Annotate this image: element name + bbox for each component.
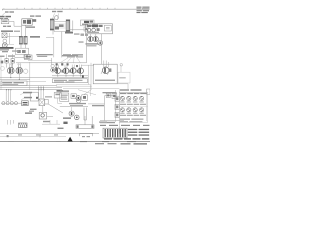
wire V2 stem [95,34,97,37]
module M4 info box left [25,55,33,60]
wire dynamotor lead down left [52,31,54,35]
wire VL2 cathode drop [18,74,20,79]
wire VL1 cathode drop [10,74,12,78]
wire V5 pins [72,65,74,68]
node caption interphone amplifier [36,54,53,55]
node label leader text above tube row [63,54,71,55]
node label left of V1 [79,41,84,42]
wire V7 pins [104,61,109,68]
note socket chart label row B [120,104,126,105]
wire right mid horizontal [105,95,116,97]
wire bottom strip verticals [7,120,13,125]
capacitor C3 marks [81,34,85,36]
wire top bus rule [2,8,143,10]
wire antenna leader [2,13,5,16]
wire tube row bus lower1 [52,75,88,77]
wire leader SD [20,93,23,95]
capacitor C16 between tubes [69,70,71,73]
wire right drop 2 [88,65,90,84]
node dark junction blob [82,75,84,78]
node label REMOTE [1,30,13,32]
note socket chart caption D [120,119,130,120]
terminal TB1 [115,96,119,101]
node marks under staple [82,136,85,137]
transformer T2 secondary winding [24,36,27,44]
resistor R2 [11,59,14,63]
wire right drop 1 [90,85,92,97]
terminal TB3 [115,112,119,117]
capacitor C13 small dark [1,61,4,64]
capacitor C14 light circle [24,69,28,73]
node pin circles above VL2 [18,64,19,65]
battery BT2 vertical pair [84,108,86,120]
node dark TP mark [63,122,67,124]
note socket chart labels under row 1 [120,101,124,104]
wire relay K2 to transformer T2 primary [20,25,22,36]
wire V6 cathode stub [80,74,82,76]
wire diagonal up right [84,90,92,95]
node label WIRING text [92,105,104,106]
node label TO REC [3,26,6,27]
tube V7 inside M8 [102,67,109,74]
wire from M8 to right [117,84,128,89]
node tick marks on top bus [17,8,115,10]
node label above R5 [63,117,71,119]
wire relay K2 to transformer T2 secondary [25,25,27,36]
meter M2 small circle [3,39,7,43]
module M8 right amplifier box [93,64,117,84]
connector P2 pin circle 3 [10,102,13,105]
note lower table row D dark [104,138,112,139]
wire dynamotor lead down right [61,32,63,58]
wire leader fan 2 [67,58,72,63]
tube V6 [78,68,84,74]
node label 300K [65,32,73,34]
capacitor C15 between tubes [62,70,64,73]
node caption right section [62,55,78,56]
wire V4 cathode stub [65,74,67,76]
capacitor C17 between tubes [77,70,79,73]
wire chassis boundary horizontal [46,37,54,57]
capacitor C1 inside dynamotor [55,27,59,30]
wire crystal branch [9,33,11,44]
wire drop to faint box [120,65,122,72]
resistor R5 horizontal [76,125,94,129]
wire diagonal to lower cluster [78,90,96,95]
battery BT1 inner box [104,25,111,31]
resistor R3 beside S1 [45,99,48,104]
connector P1 circle with pins [2,43,7,48]
jack J4 box with ring [39,112,46,119]
wire link to right [27,80,46,82]
node footer caption text left [95,143,104,144]
wire vertical long x115 [115,90,117,122]
relay K5 box [82,95,88,101]
note revision stamp text block top right [137,7,150,14]
note table right border [146,89,148,121]
relay K6 lower coil [51,68,55,72]
tube V2 below control box [93,36,98,41]
node label small left b [12,50,19,51]
wire connector chain [1,102,22,104]
wire crystal to transformer [7,36,21,38]
node label TO ANT [5,11,9,12]
node junction circle on dynamotor DM1 [55,16,59,20]
wire J4 output right [47,116,53,118]
tube socket symbols row 1 [120,96,143,100]
wire leader fan 1 [60,58,69,63]
wire drop to relay K6 [51,58,53,64]
note stamp box top [147,89,150,94]
wire V3 cathode stub [57,74,59,76]
wire lead into R2 [12,54,14,59]
capacitor C9 near V7 [109,69,112,72]
wire leader fan 3 [73,58,76,63]
transformer T3 double circle [76,96,81,101]
node label 1 mark [7,135,9,137]
jack J3 small box [24,55,30,59]
node label INTERPHONE dark row [0,47,14,49]
pin contacts K6 [55,67,57,69]
tube V1 below control box [88,36,93,41]
node label right of R5 [99,121,107,122]
module M7 tube row label box [53,79,88,83]
module M12 box [60,93,69,101]
wire long link to chart [63,88,119,90]
connector PL1 plug hatched [22,101,29,106]
wire bottom horizontal y120 [100,120,124,122]
wire P1 to M3 [8,44,15,46]
node label BO right [25,112,32,114]
wire VL1 pin leads [10,65,12,68]
wire bus lower left [0,78,30,80]
node footer dark dashes [8,140,61,143]
wire long bus B [0,87,62,89]
wire footer rule dark [0,141,150,143]
note lower table row B [128,132,138,133]
node label rows below cluster [69,103,86,104]
wire verticals into lower connector [6,90,10,101]
capacitor C8 grid cap [76,65,78,67]
wire cluster bus [60,106,88,108]
pin leads above VL2 [18,65,20,68]
node label SD right [23,92,32,94]
note socket chart border [119,92,147,122]
node label left of J4 [30,109,37,110]
module M9 faint box right [118,72,130,83]
wire V7 winding hatch [101,67,110,75]
tube V5 [70,68,76,74]
note socket chart label row A [120,93,126,94]
crystal Y1 box with X [2,33,7,38]
node label dashes right mid [103,92,117,93]
node label tiny left [0,56,5,57]
node pin circles above VL1 [9,64,10,65]
node label antenna relay title [0,16,5,17]
transformer T2 primary winding [19,36,22,44]
node label TO left [58,128,64,129]
node label inside M8 [95,80,115,81]
note table header [120,89,129,90]
resistor R4 hatched dark [19,123,28,128]
transformer T4 dark small [75,115,80,120]
module M10 box [30,92,38,101]
wire title strip line y133 [0,133,99,135]
wire V1 stem [89,34,91,37]
wire diagonal S1 to lower right [48,104,63,113]
wire below M11 [58,98,62,103]
wire leader to dynamotor right [58,13,59,19]
tube VL1 [8,67,15,74]
wire from C3 down to tube bus [86,36,88,63]
note lower table dense [100,125,150,140]
note parts list table right [119,89,150,134]
relay K1 antenna relay box [1,19,9,24]
wire horizontal y104 [88,103,105,105]
capacitor C2 inside dynamotor [59,25,64,28]
wire below label box 1 [56,84,91,86]
wire verticals x38-44 [39,86,44,99]
node tick on y136 line [39,135,41,137]
wire right drop 3 [90,63,92,90]
wire J2 stub down [85,31,87,34]
wire R1 to tube VL1 [6,63,8,68]
capacitor C4 on down lead [98,40,103,45]
wire control box down lead [101,34,103,65]
node label mid strip [43,121,50,122]
wire V4 pins [65,65,67,68]
node label W P [30,36,40,38]
module M1 control box outline [86,24,113,34]
wire mid bus upper [28,60,52,62]
module M6 label box [1,81,27,86]
node label MAIN right [24,97,32,99]
connector J5 terminal strip hatched [103,128,127,138]
wire title strip line y136 [0,135,66,137]
tube V8 lower [69,111,74,116]
connector P2 pin circle 4 [14,102,17,105]
note socket chart label row C [120,115,126,116]
module M11 small box upper [54,92,61,98]
jack J2 small box [84,27,88,31]
tube V4 [63,68,69,74]
tube VL2 [16,67,23,74]
node tiny marks above strip line [18,134,22,135]
transformer DM1 dynamotor right winding [66,20,70,32]
note lower table row A [128,129,138,130]
node junction dots tube bus [57,75,81,76]
wire R5 lead left [84,116,86,125]
wire leader fan 4 [77,58,81,63]
wire left edge vertical [0,57,2,90]
terminal TB2 [115,104,119,109]
relay K6 upper coil [51,64,54,67]
wire leader MAIN [21,98,24,100]
note table rule [119,92,147,94]
capacitor C6 grid cap [61,63,63,65]
wire long bus A [0,85,57,87]
meter M5 faint circle [0,66,4,70]
wire leader to dynamotor left [53,13,55,19]
node label T-17 [52,11,56,12]
note socket chart labels under row 2 [120,112,124,115]
node label under tubes V1 V2 [86,43,99,44]
node junction dots on buses [6,77,44,90]
wire stub to V8 [71,107,73,111]
wire bottom strip verticals mid [50,120,57,124]
wire dynamotor output to filter box FL1 [70,29,86,31]
node label 17 PT [30,15,34,16]
wire V6 pins [80,65,82,68]
wire vertical long x104 [104,96,106,121]
tube socket symbols row 2 [120,108,143,112]
capacitor C11 on line [106,93,110,97]
node footer caption text right [121,143,131,144]
wire R5 lead right [91,116,93,125]
pin contacts of relay K2 [33,19,37,22]
connector P2 pin circle 2 [6,102,9,105]
wire V3 pins [57,65,59,68]
node dark streak [57,90,64,92]
capacitor C5 grid cap [56,63,58,65]
wire R2 to tube VL2 [12,63,14,68]
wire vertical to jack J4 [42,106,44,113]
resistor R1 [5,59,8,63]
wire staple bracket [79,133,93,136]
node label below relay K2 [26,26,35,28]
relay K2 switching relay [22,19,32,25]
capacitor C12 on line [112,94,117,99]
relay K3 contacts inside control box [87,25,92,27]
wire bus upper left [0,77,52,79]
transformer DM1 dynamotor left winding [50,19,54,30]
switch S1 box with X [39,99,45,106]
node slash at rule start [2,8,4,10]
wire horizontal y124 [42,123,60,125]
wire T2 to box below left [20,44,22,48]
wire tube row bus lower2 [52,77,88,79]
tube V3 [55,68,61,74]
wire long bus C [0,89,62,91]
note table left border [118,89,120,134]
note socket chart mid rule [119,105,147,107]
wire mid bus lower [16,62,87,64]
ground symbol dark triangle [67,137,73,142]
jack J1 box [81,20,95,26]
node label right of 300K [74,33,80,34]
node label above S1 [45,96,52,97]
capacitor C10 small mark [120,64,123,67]
wire bus above right tubes [81,64,94,66]
wire dynamotor extra brush lead [72,21,74,32]
connector P2 pin circle 1 [2,102,5,105]
wire lead into R1 [6,54,8,59]
capacitor C7 grid cap [67,63,69,65]
wire antenna relay to switch [9,21,22,26]
wire to jack J3 [15,57,25,59]
wire below label box 2 [56,85,92,87]
node label small left a [2,51,8,52]
relay K4 small box [71,94,76,99]
wire left cluster right edge vertical [29,62,31,90]
module M3 box below T2 [16,48,29,54]
wire T2 to box below right [25,44,27,48]
transformer DM1 dynamotor frame [54,22,66,32]
note lower table row C [128,134,138,135]
wire V5 cathode stub [72,74,74,76]
note label row above barcode [100,125,106,126]
node label below y120 line [100,122,115,123]
note socket chart caption E [120,121,128,122]
node label above M12 [60,90,69,92]
